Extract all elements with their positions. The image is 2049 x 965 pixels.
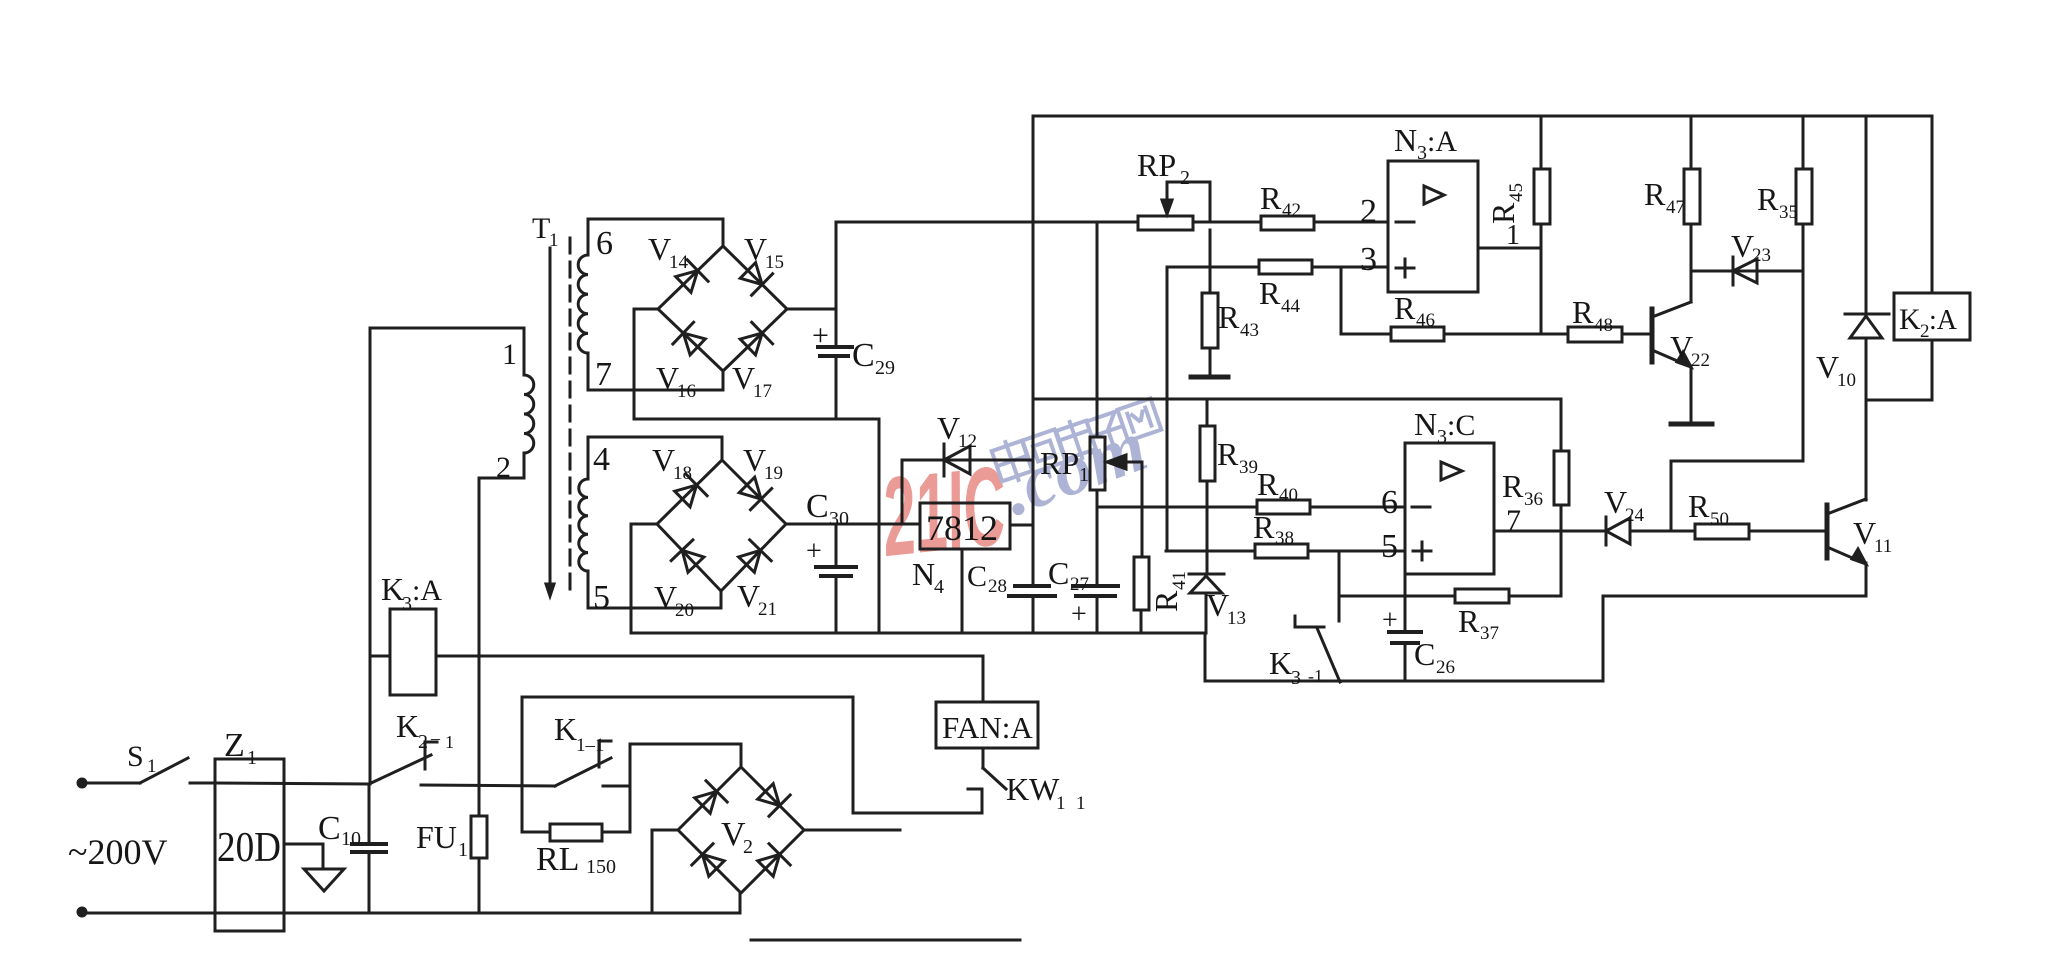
svg-text:1: 1 [458,839,468,861]
wire bridge2 plus to 7812 [786,523,920,526]
svg-text:2: 2 [418,731,428,753]
wire bridge1 minus loop [634,309,879,633]
wire R37 row [1339,595,1455,598]
svg-text:RP: RP [1137,147,1176,183]
op-amp N3:A minus [1396,221,1414,224]
wire bridge1 plus to C29 [787,308,836,311]
terminal dot N [78,908,86,916]
svg-text:V: V [737,578,760,614]
svg-text:K: K [381,571,404,607]
resistor R38 [1255,544,1308,558]
svg-text::A: :A [1929,305,1958,336]
wire V2 bottom vertex [652,893,740,913]
svg-text:R: R [1259,275,1281,311]
diode V21 [739,550,761,572]
svg-text:V: V [937,410,960,446]
svg-text:2: 2 [1360,193,1377,230]
bridge rectifier 1 diamond [658,246,787,371]
svg-text:K: K [1269,645,1292,681]
resistor R48 [1541,333,1568,336]
diode V10 [1865,116,1868,314]
resistor R46 [1391,327,1444,341]
wire pin1 [1478,247,1541,250]
svg-text:3: 3 [1360,241,1377,278]
ground V22 [1671,422,1712,427]
svg-text:38: 38 [1275,528,1294,549]
svg-text:+: + [806,536,822,567]
diode V2 upper-left [695,791,717,813]
resistor R35 [1802,116,1805,169]
wire top rail [1033,115,1932,118]
diode V12 [944,446,970,474]
capacitor C30 [835,524,838,567]
potentiometer RP2 wiper [1167,182,1210,222]
op-amp N3:C box [1405,443,1494,574]
wire R40 to pin6 [1310,506,1405,509]
svg-text:V: V [732,360,755,396]
ground wire at Z1 [284,844,323,869]
resistor RL150 [550,824,602,841]
svg-text:R: R [1257,466,1279,502]
svg-text::A: :A [1427,125,1457,158]
label R41 rotated [1148,571,1190,612]
secondary winding 6-7 leads [588,219,723,255]
node A vertical to transformer primary [369,328,372,784]
svg-text:39: 39 [1239,457,1258,478]
svg-text:42: 42 [1282,200,1301,221]
svg-text:1: 1 [1079,464,1089,486]
svg-text:4: 4 [593,441,610,478]
relay coil K2:A [1931,116,1934,293]
wire K2-1 to K1-1 [421,785,555,786]
transistor V22 [1650,309,1655,362]
svg-text:–: – [430,728,441,748]
secondary coil 4-5 [579,479,588,571]
svg-text:R: R [1502,468,1524,504]
svg-text:22: 22 [1691,350,1710,371]
capacitor C27 [1073,584,1118,588]
wire pin7 [1494,530,1606,533]
svg-text:C: C [806,488,829,525]
stray line bottom [751,939,1020,942]
fuse FU1 leads [478,478,481,816]
svg-text:1–1: 1–1 [576,735,605,756]
wire RP2 to R42 [1193,221,1261,224]
resistor R50 [1695,524,1749,539]
svg-text:1: 1 [502,338,517,371]
svg-text:35: 35 [1779,202,1798,223]
svg-text:3: 3 [1417,142,1427,164]
op-amp N3:A plus [1396,267,1414,270]
svg-text:1: 1 [1076,793,1086,814]
wire L input [82,782,140,785]
switch S1 [140,758,188,783]
diode V2 lower-right [758,854,780,876]
diode V2 lower-left [702,854,724,876]
svg-text:10: 10 [1837,370,1856,391]
resistor R41 [1134,557,1149,610]
wire S1 to Z1 [190,782,215,785]
wire pin3 to R46 [1341,267,1391,334]
ground rail mid [631,632,1205,635]
svg-text:44: 44 [1281,296,1301,317]
svg-text:20: 20 [675,600,694,621]
svg-text:V: V [743,442,766,478]
svg-text:18: 18 [673,463,692,484]
regulator 7812 box [920,503,1010,549]
svg-text:~200V: ~200V [68,832,167,872]
wire K3 coil row [370,655,390,658]
wire R40 row [1097,506,1257,509]
svg-text:FU: FU [416,819,457,855]
svg-text:11: 11 [1874,536,1892,557]
transformer primary leads [370,328,524,375]
svg-text:R: R [1148,590,1184,612]
potentiometer RP1 wiper [1141,462,1144,557]
watermark 21IC [875,398,1161,580]
svg-text:-1: -1 [1308,666,1323,686]
diode V13 [1189,573,1224,576]
svg-text::C: :C [1447,409,1475,442]
svg-text:R: R [1218,299,1240,335]
wire bridge2 minus down [631,524,657,633]
svg-text:10: 10 [341,828,361,850]
wire R46 to R48 node [1444,333,1541,336]
svg-text:4: 4 [934,576,944,598]
svg-text:15: 15 [765,252,784,273]
svg-text:24: 24 [1625,505,1645,526]
svg-text:2: 2 [743,836,753,858]
svg-text:41: 41 [1169,571,1190,590]
svg-text:V: V [744,231,767,267]
resistor R47 [1690,116,1693,169]
svg-text:R: R [1260,180,1282,216]
svg-text:27: 27 [1070,574,1089,595]
svg-text:T: T [532,212,550,245]
svg-text:29: 29 [875,357,895,379]
svg-text:V: V [1670,329,1693,365]
fan coil FAN:A box [936,702,1038,748]
op-amp N3:C minus [1412,506,1430,509]
resistor R42 [1261,216,1314,230]
svg-text:43: 43 [1240,320,1259,341]
svg-text:K: K [396,708,419,744]
svg-text:Z: Z [224,727,245,764]
resistor R37 [1455,589,1509,603]
diode V24 [1606,518,1630,544]
potentiometer RP1 [1096,222,1099,437]
wire R42 to pin2 [1314,221,1388,224]
wire ground-rail corner down [1205,633,1603,681]
contact K3-1 [1295,616,1324,627]
svg-text:2: 2 [496,451,511,484]
svg-text:FAN:A: FAN:A [942,710,1033,745]
resistor R45 [1540,116,1543,169]
transformer primary coil [524,375,534,453]
svg-text:1: 1 [549,230,559,251]
wire to V2 top [630,744,741,832]
svg-text:R: R [1217,436,1239,472]
varistor Z1 box [215,759,284,931]
node +V vertical with C28 [1032,116,1035,586]
svg-text:RL: RL [536,841,579,878]
fan loop rectangle [522,697,982,832]
svg-text:3: 3 [1291,667,1301,689]
svg-text:N: N [912,556,935,592]
svg-text:2: 2 [1180,167,1190,189]
svg-text:30: 30 [829,508,849,530]
wire R44 to pin3 [1312,266,1388,269]
svg-text:13: 13 [1227,608,1246,629]
wire K1-1 right [603,785,630,788]
wire R44 left drop [1166,267,1169,551]
wire R50 to V11 [1749,530,1827,533]
op-amp N3:A triangle [1424,186,1444,204]
diode V2 upper-right [758,784,780,806]
svg-text:28: 28 [988,576,1007,597]
svg-text:+: + [812,319,829,352]
svg-text:17: 17 [753,381,772,402]
svg-text:3: 3 [402,593,412,615]
svg-text:V: V [1853,515,1876,551]
thermal contact KW1-1 [982,748,985,768]
wire R35 down-left [1671,461,1803,531]
svg-text:150: 150 [586,856,616,878]
wire R38 to pin5 [1308,550,1405,553]
wire V11 emitter row [1603,596,1866,681]
transistor V11 [1825,505,1830,558]
resistor R43 [1209,230,1212,293]
op-amp N3:C plus [1413,550,1431,553]
wire V2 output [804,829,900,832]
svg-text:5: 5 [1381,528,1398,565]
resistor RL150 leads [522,831,550,834]
svg-text:K: K [554,711,577,747]
wire 7812 output [1010,524,1033,527]
svg-text:7812: 7812 [926,508,998,548]
svg-text:V: V [654,579,677,615]
svg-text:47: 47 [1666,197,1685,218]
svg-text:23: 23 [1752,245,1771,266]
svg-text:KW: KW [1006,771,1060,807]
svg-text:R: R [1757,181,1779,217]
svg-text:C: C [967,560,987,593]
wire N rail [80,912,652,915]
svg-text:37: 37 [1480,623,1499,644]
diode V19 [739,477,761,499]
svg-text:V: V [1731,228,1754,264]
svg-text:36: 36 [1524,489,1543,510]
op-amp N3:A box [1388,161,1478,292]
svg-text:1: 1 [1506,220,1520,251]
svg-text:46: 46 [1416,310,1435,331]
svg-text:6: 6 [1381,484,1398,521]
svg-text:R: R [1394,290,1416,326]
svg-text:45: 45 [1506,183,1527,202]
diode V16 [683,333,705,355]
svg-text:R: R [1458,603,1480,639]
wire V12 bypass [901,460,904,524]
svg-text:50: 50 [1710,509,1729,530]
svg-text:V: V [656,360,679,396]
resistor R40 [1257,500,1310,514]
transformer core dashed [569,238,572,596]
svg-text:V: V [652,442,675,478]
svg-text:+: + [1382,605,1398,636]
capacitor C26 [1404,574,1407,632]
diode V17 [740,333,762,355]
op-amp N3:C triangle [1441,462,1462,480]
contact K2-1 [369,755,431,784]
capacitor C10 [368,784,371,844]
wire through Z1 top [215,783,369,784]
svg-text:20D: 20D [217,825,281,871]
svg-text:K: K [1899,303,1921,336]
svg-text::A: :A [412,574,442,607]
transformer core [549,248,552,588]
svg-text:R: R [1253,509,1275,545]
wire R44 row [1167,266,1259,269]
ground R43 [1209,348,1212,375]
capacitor C29 [835,222,838,347]
fuse FU1 [471,816,487,858]
wire mid rail [1033,398,1561,401]
svg-text:C: C [318,810,341,847]
terminal dot L [78,779,86,787]
svg-text:V: V [648,231,671,267]
potentiometer RP2 body [1138,216,1193,230]
relay coil K3:A [390,609,436,695]
diode V14 [676,271,698,293]
wire R37 left branch [1338,551,1341,621]
resistor R44 [1259,260,1312,274]
wire R38 row [1166,550,1255,553]
svg-text:V: V [1206,587,1229,623]
svg-text:1: 1 [147,756,157,777]
svg-text:R: R [1644,176,1666,212]
ground symbol [304,869,344,891]
svg-text:12: 12 [958,431,977,452]
wire V23 row [1691,270,1803,273]
label R45 rotated [1485,183,1527,224]
svg-text:1: 1 [1056,793,1066,814]
svg-text:V: V [1816,349,1839,385]
svg-text:1: 1 [445,732,454,752]
svg-text:26: 26 [1436,657,1455,678]
wire FAN top [982,656,985,702]
capacitor C28 [1015,584,1049,588]
svg-text:19: 19 [764,463,783,484]
svg-text:21: 21 [758,599,777,620]
diode V18 [675,485,697,507]
bridge V2 diamond [678,767,804,893]
svg-text:14: 14 [669,252,689,273]
svg-text:C: C [1414,636,1435,672]
diode V15 [740,263,762,285]
svg-text:7: 7 [1506,504,1521,537]
wire V24 to R50 [1630,530,1695,533]
diode V20 [682,550,704,572]
svg-text:C: C [1048,555,1069,591]
svg-text:3: 3 [1437,426,1447,448]
svg-text:5: 5 [593,579,610,616]
svg-text:N: N [1394,122,1417,158]
wire V2 left vertex [652,830,678,913]
svg-text:1: 1 [247,747,257,769]
svg-text:V: V [1604,484,1627,520]
svg-text:RP: RP [1040,445,1079,481]
svg-text:R: R [1688,488,1710,524]
svg-text:R: R [1572,294,1594,330]
svg-text:16: 16 [677,381,696,402]
wire C29 top rail [836,221,1138,224]
svg-text:N: N [1414,406,1437,442]
bridge rectifier 2 diamond [657,460,786,591]
svg-text:+: + [1071,599,1087,630]
resistor R36 [1560,399,1563,451]
svg-text:C: C [852,337,875,374]
secondary coil 6-7 [578,255,588,353]
secondary winding 4-5 leads [588,437,722,479]
svg-text:7: 7 [595,356,612,393]
diode V23 [1733,259,1757,283]
svg-text:6: 6 [596,225,613,262]
resistor R39 [1206,399,1209,426]
wire 7812 gnd pin [961,549,964,633]
svg-text:S: S [127,740,144,773]
svg-text:48: 48 [1594,315,1613,336]
svg-text:40: 40 [1279,485,1298,506]
contact K1-1 [555,758,611,786]
